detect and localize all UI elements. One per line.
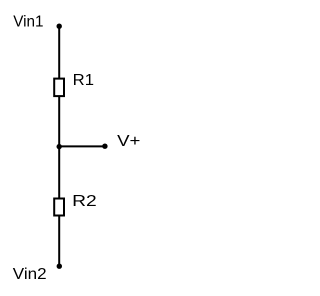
svg-text:Vin1: Vin1 [13,14,43,31]
node Vin1 terminal dot [57,24,62,29]
wire from node Vin1 to resistor R1 [58,26,60,79]
svg-text:Vin2: Vin2 [13,266,47,283]
svg-text:V+: V+ [117,133,140,150]
resistor R2 body [54,199,64,216]
node Vin2 terminal dot [57,264,62,269]
junction node dot [57,144,62,149]
svg-text:R2: R2 [72,193,97,210]
wire from resistor R2 to node Vin2 [58,215,60,266]
resistor R1 body [54,79,64,97]
wire from junction to node V+ [59,145,105,147]
node V+ terminal dot [102,144,107,149]
wire from resistor R1 to resistor R2 [58,96,60,199]
svg-text:R1: R1 [73,72,94,89]
